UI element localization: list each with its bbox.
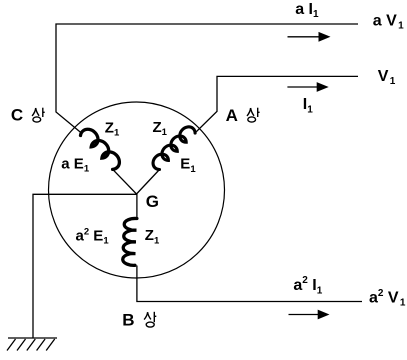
arrow I1 — [287, 82, 328, 92]
svg-text:A: A — [226, 106, 238, 125]
wire G to bottom coil — [136, 194, 138, 219]
svg-text:G: G — [146, 192, 159, 211]
inductor Z1 upper-right (A phase winding) — [153, 127, 195, 170]
wire B phase bottom — [137, 266, 362, 302]
wire coil UR to G — [137, 170, 160, 195]
inductor Z1 bottom (B phase winding) — [123, 218, 137, 265]
hangul sang B — [144, 312, 156, 327]
wire A phase — [195, 76, 358, 133]
wire neutral G to left — [33, 194, 137, 338]
arrow a2I1 — [289, 310, 330, 320]
arrow aI1 — [288, 32, 331, 42]
ground — [7, 338, 57, 351]
wire C phase top horizontal — [56, 24, 358, 134]
inductor Z1 upper-left (C phase winding) — [81, 129, 120, 169]
stator circle — [49, 102, 225, 278]
wire coil UL to G — [113, 169, 137, 194]
svg-text:C: C — [11, 106, 23, 125]
hangul sang C — [32, 108, 45, 122]
svg-text:B: B — [122, 311, 134, 330]
hangul sang A — [247, 108, 260, 122]
